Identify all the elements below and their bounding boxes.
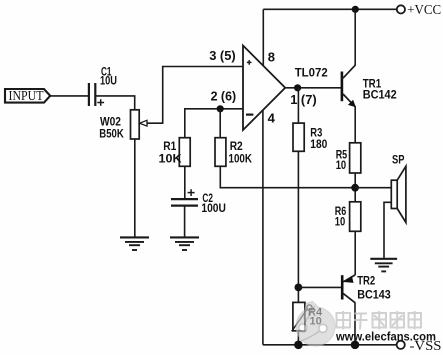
pin 8 wire xyxy=(262,9,264,66)
wiper arrow xyxy=(140,120,148,126)
wire output node to speaker xyxy=(355,187,391,189)
wire node to R2 xyxy=(219,109,221,138)
wire TR1 emitter to R5 xyxy=(354,107,356,143)
svg-text:10: 10 xyxy=(335,215,346,229)
wire speaker bottom terminal to ground xyxy=(384,202,391,258)
svg-text:TL072: TL072 xyxy=(295,65,328,79)
wire input to C1 xyxy=(50,95,88,97)
wire TR2 collector to bottom rail xyxy=(354,302,356,344)
svg-text:SP: SP xyxy=(392,153,405,167)
wire R3 bottom down to TR2 base node xyxy=(297,151,299,302)
resistor R1 xyxy=(159,138,191,167)
ground (speaker) xyxy=(370,259,397,272)
pin 4 wire xyxy=(262,110,264,345)
rail junction at TR2 xyxy=(351,341,360,350)
capacitor C2 xyxy=(171,189,226,215)
potentiometer W02 B50K xyxy=(99,110,139,141)
+VCC terminal xyxy=(397,2,441,17)
TR2 base node junction xyxy=(295,284,303,292)
INPUT connector xyxy=(5,88,50,103)
resistor R6 xyxy=(335,202,361,232)
wire R6 bottom to TR2 emitter xyxy=(354,231,356,275)
-VSS terminal xyxy=(397,338,442,353)
wire R3 chain: output node down to TR2 base node xyxy=(297,88,299,123)
watermark text 电子发烧友 xyxy=(337,311,422,330)
output wire pin 1(7) to TR1 base xyxy=(285,87,341,89)
op-amp U1 TL072 xyxy=(243,46,328,131)
svg-text:100U: 100U xyxy=(201,201,226,215)
wire C1 to potentiometer top xyxy=(95,96,134,110)
svg-text:INPUT: INPUT xyxy=(9,88,45,103)
preset resistor R4 xyxy=(292,302,323,331)
svg-text:www.elecfans.com: www.elecfans.com xyxy=(335,331,436,343)
svg-text:10K: 10K xyxy=(159,152,182,166)
bottom rail wire xyxy=(263,344,397,346)
svg-text:B50K: B50K xyxy=(99,127,124,141)
transistor TR1 BC142 xyxy=(341,65,397,107)
node 2(6) junction xyxy=(217,105,224,112)
svg-text:10U: 10U xyxy=(100,74,117,88)
svg-text:2 (6): 2 (6) xyxy=(211,89,237,104)
svg-text:180: 180 xyxy=(310,137,327,151)
wire R2 bottom feedback to output node xyxy=(220,166,355,187)
resistor R2 xyxy=(215,138,252,167)
svg-text:BC142: BC142 xyxy=(363,87,397,101)
output node junction xyxy=(294,84,301,91)
output node at speaker junction xyxy=(351,184,359,192)
top rail wire xyxy=(263,8,397,10)
wire TR1 collector to rail xyxy=(354,9,356,65)
svg-text:10: 10 xyxy=(336,158,347,172)
wire pot bottom to ground xyxy=(134,139,136,237)
svg-text:+VCC: +VCC xyxy=(407,2,441,17)
wire wiper to op-amp plus input xyxy=(148,67,243,124)
svg-text:3 (5): 3 (5) xyxy=(209,48,236,63)
rail junction at R4 xyxy=(294,341,303,350)
wire TR2 base xyxy=(298,286,341,288)
svg-text:BC143: BC143 xyxy=(357,288,391,302)
ground (C2) xyxy=(170,237,199,250)
watermark logo xyxy=(296,302,335,347)
svg-text:4: 4 xyxy=(268,111,276,126)
wire C2 bottom to ground xyxy=(184,206,186,238)
wire R4 bottom to rail xyxy=(297,331,299,345)
resistor R3 xyxy=(293,123,328,151)
capacitor C1 xyxy=(89,65,117,106)
wire R1 bottom to C2 xyxy=(184,166,186,199)
speaker SP xyxy=(391,153,406,223)
wire R5 to output node xyxy=(354,173,356,202)
top rail junction xyxy=(352,6,359,13)
ground (pot) xyxy=(120,237,149,250)
svg-text:100K: 100K xyxy=(229,152,253,166)
transistor TR2 BC143 xyxy=(341,273,391,302)
resistor R5 xyxy=(336,143,361,173)
svg-text:8: 8 xyxy=(268,49,275,64)
node inverting input wire xyxy=(185,109,243,138)
svg-text:1 (7): 1 (7) xyxy=(290,92,317,107)
svg-text:TR2: TR2 xyxy=(357,273,375,287)
